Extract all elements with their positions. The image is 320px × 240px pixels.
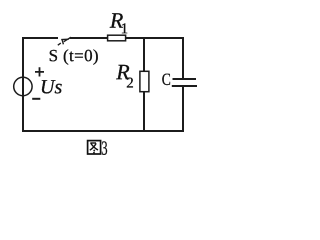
- svg-text:C: C: [162, 70, 171, 89]
- svg-text:3: 3: [101, 137, 107, 160]
- svg-text:Us: Us: [40, 76, 62, 98]
- svg-text:S (t=0): S (t=0): [49, 46, 99, 65]
- svg-text:2: 2: [126, 76, 134, 92]
- svg-text:1: 1: [121, 21, 129, 37]
